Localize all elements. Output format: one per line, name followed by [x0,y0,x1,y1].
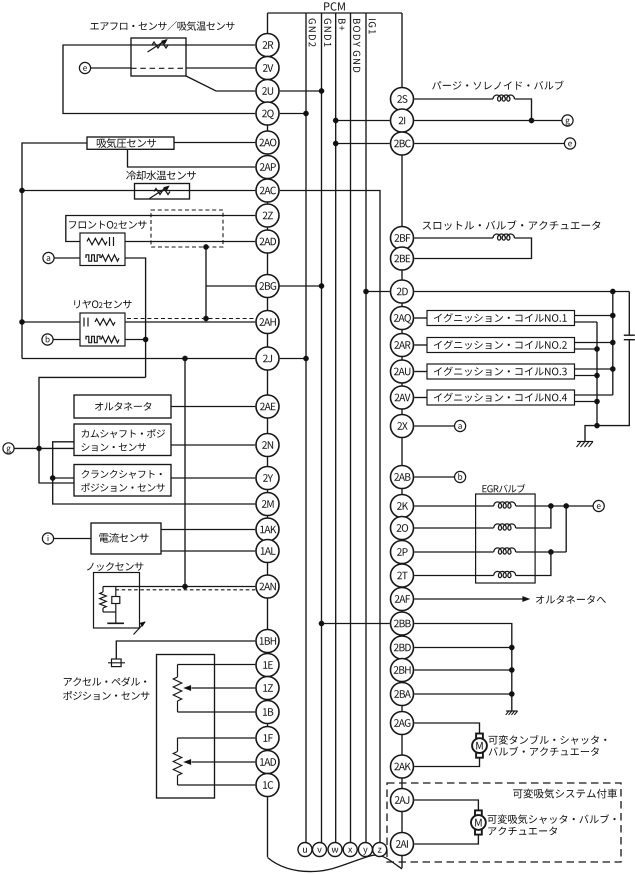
connector e (EGR) [593,500,604,511]
label EGR valve [482,484,525,493]
ignition return line A [596,322,598,426]
wire 2AI to motor M2 [414,835,478,844]
label to-alternator [536,595,606,604]
wire 2S to purge coil [414,98,493,100]
label purge solenoid valve [432,81,564,90]
EGR coil 2P out [516,551,535,553]
wire MAP bottom to 2AP [128,149,256,167]
label coolant temp sensor [126,170,196,180]
connector a (2X) [455,420,466,431]
connector b (rear O2) [42,334,53,345]
wire 2AV to coil NO.4 [414,397,427,399]
pin 2AC [256,179,279,202]
pin 2K [391,495,414,518]
chassis ground (ignition) [577,441,593,443]
wire pot2 bottom to 1C [178,784,256,786]
pin 2AI [391,833,414,856]
EGR coil 2K [494,502,516,508]
wire 2O to EGR coil [414,527,493,529]
pin 2AN [256,575,279,598]
coil NO.1 return wire [575,321,598,323]
pin 2Q [256,102,279,125]
ignition coil NO.4 box [427,390,575,405]
pin 2P [391,541,414,564]
right pin chain [401,13,403,868]
wire EGR p up [565,506,567,552]
wire EGR 2O up [535,506,551,528]
wire 2I to g [414,120,562,122]
connector a (front O2) [43,252,54,263]
pin 2J [256,347,279,370]
ignition coil NO.3 box [427,364,575,379]
wire 1BH to filter [116,641,255,659]
pin 2R [256,34,279,57]
wire cam to 2N [171,444,255,446]
pin 2AV [391,386,414,409]
ignition coil NO.2 box [427,338,575,353]
node EGR p [548,549,553,554]
left pin chain [267,13,269,857]
node 2BG-GND1 [319,283,324,288]
wire front O2 to 2AD [125,241,255,243]
wire g to cam lower [14,447,74,449]
EGR coil 2P [494,548,516,554]
rear O2 heater resistor [101,336,119,342]
wire 2U to GND1 [280,90,322,92]
pin 2AH [256,311,279,334]
wire 2AG to motor M1 [414,723,479,734]
bus IG1 [365,13,367,843]
EGR coil 2T [494,571,516,577]
node z [373,843,387,857]
node coil NO.3 supply [610,366,615,371]
thermistor (intake air temp) [131,44,186,46]
alternator box [74,395,171,418]
knock sensor box [94,573,140,629]
wire 2I to B+ [336,120,390,122]
pot2 wiper from 1AD [192,761,256,763]
pin 2BA [391,683,414,706]
wire pot1 top to 1E [178,664,256,666]
pin 2AU [391,360,414,383]
pin 2AQ [391,307,414,330]
crankshaft position sensor box [74,465,171,497]
wire rear heater to return [125,339,146,341]
coolant temp sensor box [135,184,190,200]
node g-heater return [36,446,41,451]
node crank upper [50,475,55,480]
wire 2BG to GND1 [206,285,322,287]
connector i (current sensor) [42,533,53,544]
node u [298,843,312,857]
wire 2BC to B+ [336,143,390,145]
knock piezo element [112,597,120,604]
pot1 resistor [173,677,181,701]
wire crank upper stub [53,477,74,479]
pin 2S [391,88,414,111]
pin 2AF [391,588,414,611]
pin 2AG [391,712,414,735]
ignition supply line B [612,292,614,396]
capacitor line C lower [585,340,629,442]
pin 2V [256,57,279,80]
pin 2BH [391,659,414,682]
node EGR k2 [564,503,569,508]
label variable intake system [513,789,617,799]
node coil supply branch [610,289,615,294]
node coil NO.1 supply [610,313,615,318]
wire 2AU to coil NO.3 [414,371,427,373]
accel pedal sensor box [157,655,215,799]
wire 2BB to GND1 [322,623,390,625]
airflow sensing element dashed line [131,67,186,69]
pin 1AD [256,751,279,774]
wire 2AF to alternator [414,598,523,600]
node return-ground [594,423,599,428]
chassis ground (sensor rail) [506,710,518,712]
knock ground stem [115,612,117,623]
pin 1BH [256,630,279,653]
node x [343,843,357,857]
front O2 heater coil [86,255,100,261]
pot2 resistor [173,752,181,776]
pin 2I [391,109,414,132]
wire knock to 2AN [103,586,255,588]
pin 2AB [391,466,414,489]
pin 1B [256,701,279,724]
connector g (left) [3,443,14,454]
connector b (2AB) [455,471,466,482]
rear O2 sensor box [80,313,125,346]
coil NO.2 return wire [575,348,598,350]
node coil NO.2 supply [610,340,615,345]
knock shield dashed [116,589,256,591]
wire sensor to 2V [186,67,255,69]
node shield top [203,244,208,249]
cam/crank upper tie [53,442,256,504]
pin 2BB [391,612,414,635]
coil NO.3 supply wire [575,368,613,370]
connector e (2BC) [564,138,575,149]
camshaft position sensor box [74,424,171,456]
pin 2BE [391,247,414,270]
wire 2D to coil supply [414,291,629,293]
wire EGR 2T up [535,552,551,576]
wire 2AR to coil NO.2 [414,344,427,346]
bus B+ [335,13,337,843]
pin 2AD [256,230,279,253]
node purge-2I [529,118,534,123]
variable intake system dashed box [387,783,621,862]
wire 2T to EGR coil [414,575,493,577]
wire 2Q to GND2 [280,113,306,115]
wire b to rear heater [53,339,80,341]
rear O2 element resistor [95,319,115,325]
wire crank to 2Y [171,477,255,479]
coil NO.4 supply wire [575,394,613,396]
node shield bottom [203,316,208,321]
wire MAP to 2AO [174,142,255,144]
pin 2U [256,80,279,103]
wire 2Z to front O2 [66,216,255,242]
node 2J sensor-common [182,356,187,361]
pin 1C [256,774,279,797]
wire 2BH to rail [414,669,512,671]
wire 2AJ to motor M2 [414,800,478,810]
node 2I-B+ [333,118,338,123]
wire loop 2R-side to 2Q [63,45,255,114]
bus GND1 [321,13,323,843]
wire purge coil down [515,99,532,121]
wire rear O2 to 2AH [125,321,255,323]
EGR coil 2O out [516,527,535,529]
pin 1AK [256,518,279,541]
wire current to 1AL [161,550,255,552]
label throttle valve actuator [423,220,601,230]
wire 2BF to throttle coil [414,237,493,239]
wire front heater to return [125,258,146,377]
node 2J-GND2 [303,356,308,361]
node w [328,843,342,857]
front O2 element resistor [87,238,107,244]
PCM top edge [268,12,403,14]
pin 2AP [256,156,279,179]
node coil NO.4 return [594,399,599,404]
capacitor line C upper [628,292,630,336]
ignition coil NO.1 box [427,311,575,326]
thermistor (coolant) [154,189,170,195]
EGR valve box [476,494,535,583]
noise filter symbol [112,659,122,667]
node 2U-GND1 [319,88,324,93]
pin 1AL [256,540,279,563]
label rear O2 sensor [74,300,98,309]
wire a to front O2 heater [54,257,80,259]
node knock-common [182,584,187,589]
wire 2AC to net z [280,191,380,843]
node coil NO.3 return [594,373,599,378]
throttle actuator coil [493,234,514,240]
coil NO.3 return wire [575,375,598,377]
connector g (purge) [562,115,573,126]
node rear O2 common [19,319,24,324]
pin 2BG [256,275,279,298]
wire 2AQ to coil NO.1 [414,317,427,319]
motor M2 (intake shutter) [475,810,482,815]
coil NO.2 supply wire [575,342,613,344]
node coil NO.2 return [594,346,599,351]
pin 2Y [256,467,279,490]
node 2BH rail [509,667,514,672]
pin 2N [256,434,279,457]
label tumble shutter actuator [489,735,607,745]
pin 2O [391,517,414,540]
wire pot1 bottom to 1B [178,711,256,713]
node v [313,843,327,857]
node heater return [143,337,148,342]
node 2BC-B+ [333,141,338,146]
label front O2 sensor [69,221,113,229]
wire MAP left to common [22,143,87,359]
knock signal ground [107,622,124,624]
pin 2D [391,280,414,303]
wire e to box [91,67,131,69]
pin 2AJ [391,789,414,812]
connector e (airflow) [79,62,90,73]
pin 2AE [256,395,279,418]
wire 2J to GND2 [280,358,306,360]
pin 2T [391,564,414,587]
sensor common vertical [184,359,186,587]
EGR coil 2O [494,524,516,530]
pin 2AK [391,755,414,778]
wire i to box [54,538,91,540]
shield stub vertical [205,247,207,319]
node 2BA rail [509,691,514,696]
pin 2M [256,493,279,516]
node y [358,843,372,857]
wire pot2 top to 1F [178,737,256,739]
knock resistor [100,592,107,608]
PCM label [324,2,345,10]
node on common at 2AC [19,188,24,193]
wire rear O2 left to common [22,321,80,323]
break line [268,855,403,871]
coil NO.1 supply wire [575,315,613,317]
shield dashed box [151,210,223,247]
node 2BD rail [509,645,514,650]
node EGR k1 [548,503,553,508]
coil NO.4 return wire [575,401,598,403]
wire 2AB to b [414,476,454,478]
knock chassis arrow [134,622,146,635]
rear O2 element capacitor [83,318,85,327]
wire heater return across [39,377,146,483]
wire EGR 2K out [535,505,593,507]
wire 2AC row [22,190,255,192]
motor M1 (tumble shutter) [476,734,483,739]
wire 2J row [22,358,255,360]
wire 2K to EGR coil [414,505,493,507]
pin 2AR [391,334,414,357]
pin 2AO [256,131,279,154]
label intake shutter actuator [488,814,616,824]
rear O2 heater coil [86,336,100,342]
wire 2BB to ground rail [414,624,512,712]
label accel pedal position sensor [64,677,146,686]
shield dashed line 2AH [127,318,255,320]
pin 2BD [391,636,414,659]
wire 2X to a [414,425,454,427]
pin 2X [391,415,414,438]
node 2BB-GND1 [319,621,324,626]
wire throttle loop to 2BE [414,238,531,259]
pot1 wiper from 1Z [192,687,256,689]
wire 2BD to rail [414,647,512,649]
wire box corner to 2U [186,76,255,91]
wire alternator to 2AE [171,406,255,408]
bus BODY GND [350,13,352,843]
node 2Q-GND2 [303,111,308,116]
wire 2BA to rail [414,693,512,695]
label knock sensor [87,562,143,571]
pin 1Z [256,677,279,700]
pin 2BC [391,132,414,155]
wire 2D to IG1 [366,291,390,293]
wire 2P to EGR coil [414,551,493,553]
wire 2BC to e [414,143,564,145]
current sensor box [91,523,161,554]
front O2 sensor box [80,233,125,266]
knock bottom wire [103,611,116,613]
pin 1E [256,654,279,677]
wire thermistor to 2R [186,44,255,46]
airflow sensor box [131,38,186,76]
MAP sensor box [87,137,174,149]
wire 2AK to motor M1 [414,758,479,767]
front O2 heater resistor [101,255,119,261]
label airflow/intake-temp sensor [90,21,234,31]
node 2D-IG1 [363,289,368,294]
bus GND2 [305,13,307,843]
wire EGR 2P out [535,551,566,553]
front O2 element capacitor [109,237,111,246]
pin 2BF [391,227,414,250]
purge solenoid coil [493,95,514,101]
pin 2Z [256,204,279,227]
noise capacitor C1 [624,334,635,336]
pin 1F [256,727,279,750]
EGR coil 2T out [516,575,535,577]
wire current to 1AK [161,529,255,531]
EGR coil 2K out [516,505,535,507]
